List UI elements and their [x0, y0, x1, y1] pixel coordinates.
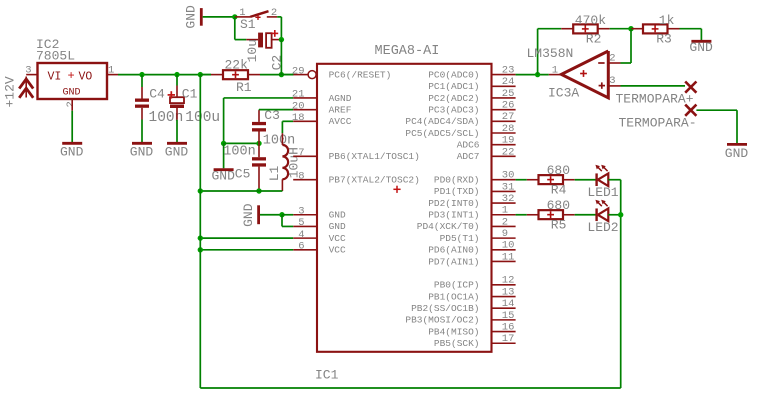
svg-text:23: 23: [502, 65, 515, 77]
svg-text:GND: GND: [329, 221, 346, 232]
svg-text:19: 19: [502, 135, 515, 147]
inductor L1 10uH: [267, 133, 302, 191]
svg-text:PB2(SS/OC1B): PB2(SS/OC1B): [411, 303, 479, 314]
pin 3 GND: [293, 205, 346, 220]
junction: [198, 247, 203, 252]
pin 10 PD6(AIN0): [428, 240, 515, 256]
svg-text:TERMOPARA+: TERMOPARA+: [616, 92, 694, 107]
svg-text:PB4(MISO): PB4(MISO): [428, 326, 479, 337]
svg-text:PD0(RXD): PD0(RXD): [434, 175, 480, 186]
ground S1 rotated: [184, 5, 235, 29]
pin 24 PC1(ADC1): [428, 76, 515, 92]
svg-text:PD3(INT1): PD3(INT1): [428, 210, 479, 221]
svg-text:R2: R2: [586, 32, 602, 47]
svg-text:PD7(AIN1): PD7(AIN1): [428, 256, 479, 267]
svg-text:100n: 100n: [263, 133, 295, 148]
junction: [198, 235, 203, 240]
svg-text:22: 22: [502, 146, 515, 158]
microcontroller IC1 MEGA8-AI body: [315, 44, 492, 382]
pin 16 PB4(MISO): [428, 321, 515, 337]
junction: [256, 141, 261, 146]
svg-text:C1: C1: [182, 87, 198, 102]
svg-text:PD2(INT0): PD2(INT0): [428, 198, 479, 209]
pin 2 PD4(XCK/T0): [417, 216, 516, 232]
svg-text:TERMOPARA-: TERMOPARA-: [619, 115, 697, 130]
wire inverting input: [630, 29, 632, 63]
svg-text:8: 8: [298, 170, 304, 182]
svg-text:10u: 10u: [245, 39, 260, 62]
pin 15 PB3(MOSI/OC2): [405, 310, 515, 326]
svg-text:LM358N: LM358N: [527, 46, 574, 61]
wire non-inverting input to TERMOPARA+: [621, 85, 686, 87]
svg-text:PC4(ADC4/SDA): PC4(ADC4/SDA): [405, 116, 479, 127]
svg-text:PC0(ADC0): PC0(ADC0): [428, 69, 479, 80]
svg-text:GND: GND: [329, 210, 346, 221]
pin 23 PC0(ADC0): [428, 65, 515, 81]
wire AGND net: [224, 97, 294, 99]
wire VCC vertical: [199, 75, 201, 388]
svg-text:2: 2: [65, 101, 77, 107]
wire AREF net: [259, 109, 293, 111]
ground R3: [689, 40, 713, 55]
svg-text:PC3(ADC3): PC3(ADC3): [428, 104, 479, 115]
junction: [535, 72, 540, 77]
junction: [174, 72, 179, 77]
wire VCC pin6: [200, 249, 293, 251]
pin 12 PB0(ICP): [434, 275, 516, 291]
wire LED rail: [620, 180, 622, 388]
svg-text:1k: 1k: [659, 13, 675, 28]
svg-text:PC2(ADC2): PC2(ADC2): [428, 93, 479, 104]
wire R5 to LED2: [575, 214, 596, 216]
svg-text:AREF: AREF: [329, 104, 352, 115]
svg-text:2: 2: [271, 7, 277, 19]
svg-text:C4: C4: [149, 87, 165, 102]
svg-text:1: 1: [502, 205, 508, 217]
svg-text:10: 10: [502, 240, 515, 252]
wire PD to R4: [516, 179, 527, 181]
resistor R2 470k: [561, 13, 610, 47]
junction: [279, 212, 284, 217]
junction: [198, 188, 203, 193]
svg-text:18: 18: [292, 112, 305, 124]
junction: [618, 212, 623, 217]
pin 29 PC6(/RESET): [292, 65, 391, 80]
svg-text:11: 11: [502, 251, 515, 263]
svg-text:17: 17: [502, 333, 515, 345]
junction: [221, 141, 226, 146]
svg-text:13: 13: [502, 286, 515, 298]
pin 18 AVCC: [292, 112, 352, 127]
svg-text:27: 27: [502, 111, 515, 123]
svg-text:PD1(TXD): PD1(TXD): [434, 186, 480, 197]
svg-text:VI: VI: [48, 71, 62, 84]
svg-text:7: 7: [298, 147, 304, 159]
svg-text:GND: GND: [130, 144, 154, 159]
svg-text:R3: R3: [656, 32, 672, 47]
svg-text:AVCC: AVCC: [329, 116, 352, 127]
svg-text:680: 680: [547, 198, 570, 213]
svg-text:L1: L1: [267, 165, 282, 181]
node TERMOPARA- X mark: [619, 105, 697, 131]
svg-text:VO: VO: [79, 71, 93, 84]
pin 31 PD1(TXD): [434, 181, 516, 197]
pin 14 PB2(SS/OC1B): [411, 298, 516, 314]
wire bottom rail: [200, 387, 620, 389]
pin 13 PB1(OC1A): [428, 286, 515, 302]
svg-text:16: 16: [502, 321, 515, 333]
wire PD to R5: [516, 214, 527, 216]
svg-text:28: 28: [502, 123, 515, 135]
junction: [232, 14, 237, 19]
svg-text:PD4(XCK/T0): PD4(XCK/T0): [417, 221, 480, 232]
svg-text:R5: R5: [551, 218, 567, 233]
svg-text:20: 20: [292, 100, 305, 112]
svg-text:PB3(MOSI/OC2): PB3(MOSI/OC2): [405, 315, 479, 326]
junction: [256, 188, 261, 193]
wire GND junction down to C2: [234, 17, 236, 40]
wire reset net: [280, 40, 282, 75]
svg-text:100n: 100n: [223, 144, 255, 159]
wire 5V rail: [118, 74, 211, 76]
ground AGND: [212, 168, 236, 183]
pin 21 AGND: [292, 89, 352, 104]
pin 11 PD7(AIN1): [428, 251, 515, 267]
wire LED1 cathode: [608, 179, 620, 181]
resistor R3 1k: [631, 13, 680, 47]
svg-text:VCC: VCC: [329, 245, 346, 256]
svg-text:26: 26: [502, 100, 515, 112]
svg-text:7805L: 7805L: [36, 49, 75, 64]
wire LED2 cathode: [608, 214, 620, 216]
svg-text:GND: GND: [184, 5, 199, 29]
svg-text:LED1: LED1: [587, 185, 618, 200]
svg-text:C5: C5: [235, 167, 251, 182]
capacitor C1 100u polarized: [168, 75, 221, 143]
svg-text:MEGA8-AI: MEGA8-AI: [375, 44, 440, 59]
svg-text:6: 6: [298, 241, 304, 253]
ground IC2: [60, 143, 84, 159]
wire feedback up: [537, 29, 539, 75]
supply +12V symbol: [3, 76, 34, 107]
svg-text:PD6(AIN0): PD6(AIN0): [428, 245, 479, 256]
svg-text:LED2: LED2: [587, 220, 618, 235]
wire VCC pin4: [200, 237, 293, 239]
pin 8 PB7(XTAL2/TOSC2): [293, 170, 420, 185]
resistor R4 680: [527, 163, 575, 198]
svg-text:GND: GND: [63, 88, 81, 99]
svg-text:29: 29: [292, 65, 305, 77]
svg-text:31: 31: [502, 181, 515, 193]
svg-text:IC3A: IC3A: [548, 86, 579, 101]
svg-text:PC1(ADC1): PC1(ADC1): [428, 81, 479, 92]
svg-text:GND: GND: [212, 168, 236, 183]
pin 26 PC3(ADC3): [428, 100, 515, 116]
wire between C3 C5: [224, 142, 259, 144]
pin 25 PC2(ADC2): [428, 88, 515, 104]
junction: [139, 72, 144, 77]
wire TERMOPARA- to ground: [696, 109, 737, 111]
wire regulator ground: [71, 111, 73, 143]
junction: [279, 37, 284, 42]
svg-text:GND: GND: [725, 146, 749, 161]
svg-text:100u: 100u: [185, 110, 220, 126]
ground C4: [130, 143, 154, 159]
wire S1 pin2 to C2: [277, 16, 281, 18]
svg-text:VCC: VCC: [329, 233, 346, 244]
capacitor C3 100n: [252, 108, 295, 149]
svg-text:C3: C3: [264, 108, 280, 123]
svg-text:21: 21: [292, 89, 305, 101]
svg-text:PB6(XTAL1/TOSC1): PB6(XTAL1/TOSC1): [329, 151, 420, 162]
svg-text:30: 30: [502, 170, 515, 182]
junction: [198, 72, 203, 77]
svg-text:24: 24: [502, 76, 515, 88]
svg-text:R1: R1: [236, 80, 252, 95]
pin 22 ADC7: [457, 146, 516, 162]
op-amp IC3A LM358N: [527, 46, 621, 100]
pin 30 PD0(RXD): [434, 170, 516, 186]
svg-text:PB1(OC1A): PB1(OC1A): [428, 291, 479, 302]
svg-text:R4: R4: [551, 183, 567, 198]
LED LED1: [587, 165, 618, 200]
svg-text:100n: 100n: [149, 110, 184, 126]
svg-text:PB7(XTAL2/TOSC2): PB7(XTAL2/TOSC2): [329, 175, 420, 186]
wire GND pin3: [282, 214, 293, 216]
svg-text:GND: GND: [241, 203, 256, 227]
pin 17 PB5(SCK): [434, 333, 516, 349]
ground MCU rotated: [241, 203, 282, 227]
svg-text:3: 3: [298, 205, 304, 217]
wire AVCC net: [282, 120, 293, 122]
svg-text:5: 5: [298, 217, 304, 229]
resistor R1 22k: [200, 58, 293, 96]
wire R4 to LED1: [575, 179, 596, 181]
ground C1: [165, 143, 189, 159]
pin 1 PD3(INT1): [428, 205, 515, 221]
svg-text:14: 14: [502, 298, 515, 310]
svg-text:15: 15: [502, 310, 515, 322]
wire R3 to ground: [680, 28, 702, 30]
svg-text:IC1: IC1: [315, 367, 339, 382]
svg-text:32: 32: [502, 193, 515, 205]
capacitor C5 100n: [223, 143, 266, 191]
svg-text:470k: 470k: [575, 13, 606, 28]
svg-text:GND: GND: [60, 144, 84, 159]
capacitor C2 10u polarized rotated: [245, 30, 284, 70]
junction: [279, 72, 284, 77]
LED LED2: [587, 200, 618, 235]
svg-text:9: 9: [502, 228, 508, 240]
wire analog bottom rail: [200, 190, 282, 192]
svg-text:PB0(ICP): PB0(ICP): [434, 280, 480, 291]
wire PC0 to op-amp: [516, 74, 549, 76]
svg-text:4: 4: [298, 229, 304, 241]
voltage regulator IC2 7805L: [25, 37, 118, 111]
pin 4 VCC: [293, 229, 346, 244]
switch S1: [235, 7, 277, 32]
svg-text:12: 12: [502, 275, 515, 287]
svg-text:680: 680: [547, 163, 570, 178]
svg-text:GND: GND: [689, 40, 713, 55]
svg-text:AGND: AGND: [329, 93, 352, 104]
pin 5 GND: [293, 217, 346, 232]
svg-text:PD5(T1): PD5(T1): [440, 233, 480, 244]
svg-text:+12V: +12V: [3, 76, 18, 107]
svg-text:PC6(/RESET): PC6(/RESET): [329, 69, 392, 80]
svg-text:S1: S1: [240, 17, 256, 32]
pin 20 AREF: [292, 100, 352, 115]
ground TERMOPARA-: [725, 144, 749, 161]
svg-text:PC5(ADC5/SCL): PC5(ADC5/SCL): [405, 128, 479, 139]
pin 27 PC4(ADC4/SDA): [405, 111, 515, 127]
svg-text:PB5(SCK): PB5(SCK): [434, 338, 480, 349]
svg-text:25: 25: [502, 88, 515, 100]
pin 6 VCC: [293, 241, 346, 256]
svg-text:ADC7: ADC7: [457, 151, 480, 162]
pin 9 PD5(T1): [440, 228, 516, 244]
svg-text:+: +: [68, 69, 75, 83]
junction: [628, 26, 633, 31]
pin 28 PC5(ADC5/SCL): [405, 123, 515, 139]
node TERMOPARA+ X mark: [616, 82, 697, 107]
wire R2 to R3: [610, 28, 631, 30]
svg-text:ADC6: ADC6: [457, 139, 480, 150]
resistor R5 680: [527, 198, 575, 233]
pin 19 ADC6: [457, 135, 516, 151]
wire GND pin5: [281, 215, 283, 227]
svg-text:GND: GND: [165, 144, 189, 159]
svg-text:2: 2: [502, 216, 508, 228]
capacitor C4 100n: [135, 75, 183, 143]
wire AGND to ground: [223, 143, 225, 168]
pin 32 PD2(INT0): [428, 193, 515, 209]
pin 7 PB6(XTAL1/TOSC1): [293, 147, 420, 162]
